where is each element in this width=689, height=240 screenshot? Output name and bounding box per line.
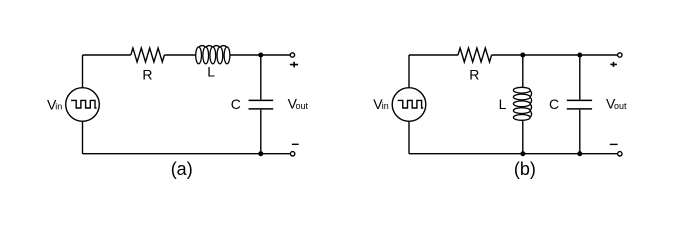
svg-text:R: R	[142, 67, 152, 83]
svg-text:(b): (b)	[514, 159, 536, 179]
svg-text:out: out	[296, 101, 309, 111]
svg-text:out: out	[614, 101, 627, 111]
svg-text:L: L	[207, 63, 215, 79]
svg-text:C: C	[549, 96, 559, 112]
svg-text:R: R	[469, 67, 479, 83]
svg-text:L: L	[499, 96, 507, 112]
svg-text:C: C	[231, 96, 241, 112]
svg-text:in: in	[382, 101, 389, 111]
svg-text:(a): (a)	[171, 159, 193, 179]
svg-text:in: in	[55, 102, 62, 112]
